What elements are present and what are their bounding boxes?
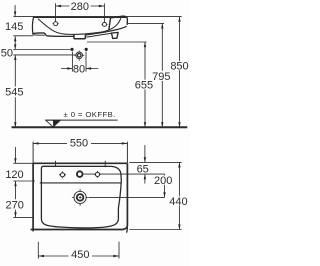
dim 80 extension left [71, 52, 73, 72]
extension line 120 bottom [13, 180, 35, 182]
svg-text:795: 795 [152, 71, 170, 83]
dim 550 line [33, 142, 127, 144]
extension line anchor dots row [13, 49, 70, 51]
dim 270 line [15, 181, 17, 217]
level datum line [46, 119, 118, 121]
level datum triangle filled half [53, 120, 60, 127]
extension line top right (plan) [129, 161, 181, 163]
dim 280 arrow left [56, 5, 62, 7]
dim 795 line [161, 23, 163, 127]
washbasin front view left edge [32, 18, 35, 35]
bottom contour right of boss rising to curl corner [86, 26, 127, 35]
drain plan symbol bold ring [77, 194, 84, 201]
svg-text:120: 120 [5, 169, 23, 181]
drain symbol front view bold ring [77, 54, 81, 58]
hole centre tick on top edge right [104, 161, 106, 167]
svg-text:545: 545 [5, 87, 23, 99]
tap hole centre plan (bold) [77, 171, 83, 177]
basin bottom contour lower-left line [33, 34, 45, 36]
svg-text:65: 65 [137, 164, 149, 176]
dim 550 extension right joins outer right edge [126, 142, 128, 163]
svg-text:80: 80 [73, 63, 85, 75]
drain boss (front view) [74, 34, 86, 38]
washbasin plan view inner outline [41, 166, 121, 228]
svg-text:655: 655 [135, 80, 153, 92]
tap hole right (front view) [103, 22, 107, 26]
washbasin plan view outer outline [31, 163, 128, 231]
extension line 655 [87, 41, 147, 43]
tap hole right plan [95, 172, 99, 176]
svg-text:280: 280 [71, 1, 89, 13]
anchor dot right [85, 48, 88, 51]
dim 80 outside arrows [61, 68, 98, 70]
washbasin bowl rim curve [38, 18, 121, 34]
extension line 120 top [13, 162, 33, 164]
drain plan symbol inner cross [79, 196, 82, 199]
dim 200 line [164, 174, 166, 197]
extension line 145 bottom [13, 35, 33, 37]
dim 145 upper segment [14, 5, 16, 17]
tap deck front line [40, 182, 122, 184]
basin bottom contour upper line with step [33, 33, 73, 36]
extension line 270 bottom [13, 216, 33, 218]
svg-text:145: 145 [5, 21, 23, 33]
dim 545 line [14, 55, 16, 127]
holes leader line [83, 173, 164, 175]
svg-text:± 0 = OKFFB.: ± 0 = OKFFB. [64, 110, 116, 119]
extension line bottom right (plan) [129, 229, 181, 231]
washbasin front view top rim (bold) [33, 16, 127, 18]
extension line 795 [128, 22, 164, 24]
drain plan symbol cross ticks [72, 189, 88, 206]
svg-text:50: 50 [1, 47, 13, 59]
anchor dot left [70, 48, 73, 51]
dim 450 extension right [118, 242, 120, 259]
outer bottom-right overshoot [126, 225, 129, 233]
dim 280 extension line left [55, 3, 57, 21]
svg-text:200: 200 [154, 175, 172, 187]
hole centre tick on top edge left [55, 161, 57, 167]
svg-text:850: 850 [170, 61, 188, 73]
svg-text:550: 550 [70, 138, 88, 150]
dim 145/50 middle segment [14, 36, 16, 49]
dim 450 extension left [37, 242, 39, 259]
drain leader line [89, 196, 165, 198]
dim 65 lower segment [144, 174, 146, 184]
drain symbol front view outer [76, 52, 83, 59]
dim 65 upper segment [144, 145, 146, 162]
dim 280 line [56, 5, 105, 7]
dim 80 label [73, 63, 85, 75]
dim 120 upper segment [14, 147, 16, 163]
drain symbol cross ticks [74, 51, 84, 61]
svg-text:270: 270 [6, 199, 24, 211]
dim 550 extension left joins outer left edge [32, 142, 34, 163]
top rim extension line (850 reference) [13, 16, 181, 18]
dim 280 arrow right [99, 5, 105, 7]
dim 655 line [144, 42, 146, 127]
bottom diagonal lower [87, 33, 112, 37]
svg-text:440: 440 [169, 196, 187, 208]
dim 280 extension line right [103, 3, 105, 22]
foot below curl [112, 33, 119, 39]
side profile curl outline [109, 16, 128, 30]
dim 80 extension right [85, 52, 87, 72]
tap hole left plan [60, 173, 64, 177]
floor line [12, 126, 188, 128]
dim 200 label [154, 175, 173, 187]
svg-text:450: 450 [71, 249, 89, 261]
dim 850 line [179, 17, 181, 128]
level datum triangle outline [46, 120, 61, 127]
drain plan symbol outer circle [74, 191, 86, 203]
dim 450 line [38, 255, 119, 257]
extension line drain row [13, 54, 75, 56]
dim 440 line [178, 162, 180, 229]
tap hole left (front view) [54, 22, 58, 26]
